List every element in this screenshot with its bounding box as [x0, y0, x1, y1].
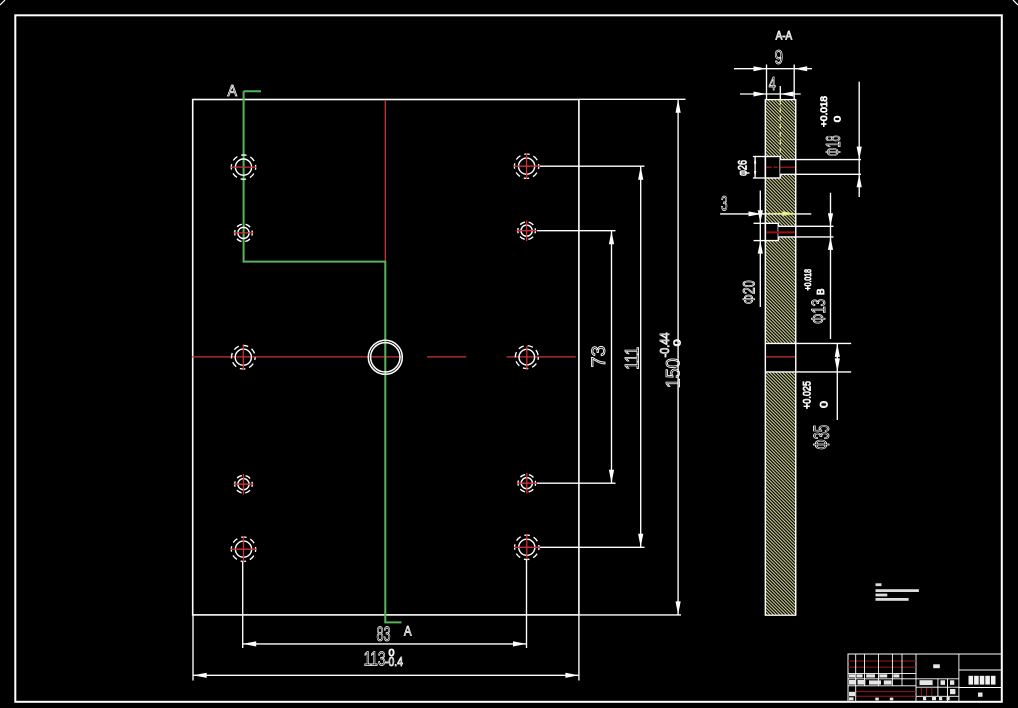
yellow dashed line x=780.3 (4-dim reference): [779, 100, 781, 157]
title block left zone white verticals: [856, 654, 902, 702]
section cutting line A-A (green polyline): [244, 91, 402, 622]
corner tick top-right: [1013, 0, 1018, 5]
dimension 4: [740, 74, 801, 97]
dimension phi26: [736, 157, 757, 179]
dimension phi13 +0.018/B: [803, 193, 833, 339]
svg-text:+0.018: +0.018: [819, 96, 830, 127]
top edge extension line (150 dim): [579, 98, 686, 100]
hole2 counterbore (phi20) cavity: [765, 223, 778, 240]
technical notes text block: [876, 583, 919, 601]
extension line from hole R2: [537, 230, 616, 232]
dimension 113 -0.4: [193, 648, 579, 678]
svg-text:B: B: [816, 288, 827, 295]
corner tick top-left: [0, 0, 5, 5]
svg-text:150: 150: [664, 358, 685, 388]
extension line down from hole L5 (83 dim): [242, 562, 244, 648]
title block outer: [848, 654, 1002, 702]
svg-text:0: 0: [833, 116, 844, 123]
hole2 through-hole edges + phi13 extension lines: [778, 225, 833, 227]
svg-text:0: 0: [818, 401, 830, 408]
svg-text:Φ20: Φ20: [740, 280, 759, 304]
hole R1 (526.6,166): [514, 154, 540, 180]
strip left/right edge redraw over cavities: [764, 100, 766, 616]
hole1 counterbore (phi26) cavity: [765, 157, 780, 179]
dimension 111: [623, 166, 644, 547]
title block middle zone red ticks: [921, 688, 932, 696]
hole1 through hole (phi18) cavity: [780, 160, 796, 175]
svg-text:113: 113: [364, 649, 386, 671]
hole R4 (526.8,483): [517, 473, 537, 494]
svg-text:-0.44: -0.44: [657, 333, 672, 358]
dimension phi35 +0.025/0: [802, 343, 840, 449]
dimension 83: [243, 623, 527, 647]
red vertical centerline of big hole (upper part): [384, 100, 386, 262]
svg-text:A: A: [404, 623, 412, 639]
hole L5 (243.5,549): [231, 536, 257, 563]
hole3 (phi35) cavity: [765, 343, 795, 372]
title block drawing name blobs: [969, 676, 996, 685]
title block main vertical dividers: [915, 654, 917, 702]
svg-text:φ26: φ26: [736, 160, 750, 176]
svg-text:111: 111: [623, 347, 644, 370]
dimension 3: [720, 193, 811, 217]
red horizontal centerline: [192, 356, 576, 358]
svg-text:9: 9: [775, 47, 784, 69]
hole3 edges + phi35 extension lines: [765, 342, 851, 344]
title block tiny text blobs: [849, 664, 983, 700]
hole1 counterbore extension lines (phi26): [753, 156, 766, 158]
hole2 centerline (dark red): [767, 231, 795, 233]
title block middle zone lines: [916, 679, 959, 702]
left edge extension line (113 dim): [192, 615, 194, 681]
svg-text:3: 3: [721, 193, 728, 216]
white extension above strip for 4-dim: [779, 86, 781, 100]
hole2 through hole (phi13) cavity: [778, 226, 795, 237]
extension line down from hole R5 (83 dim): [526, 559, 528, 648]
svg-text:Φ35: Φ35: [809, 425, 834, 450]
svg-text:A-A: A-A: [776, 31, 793, 43]
extension line from hole R4: [537, 482, 616, 484]
svg-text:4: 4: [769, 74, 776, 94]
yellow leader arrow at hole2: [766, 211, 795, 216]
svg-text:0: 0: [389, 648, 395, 659]
svg-text:0: 0: [672, 339, 683, 347]
hole1 through-hole edges + phi18 extension lines: [780, 159, 861, 161]
hole L4 (243.5,484): [234, 474, 254, 495]
svg-text:73: 73: [589, 346, 610, 368]
extension line from hole R5: [540, 546, 645, 548]
hole1 centerline (dark red): [766, 166, 796, 168]
hole L3 (243.5,357): [232, 345, 256, 369]
dimension phi20: [740, 191, 763, 308]
dimension 9: [734, 47, 812, 100]
right edge extension line (113 dim): [578, 615, 580, 681]
hole2 counterbore extension lines (phi20): [754, 222, 766, 224]
svg-text:83: 83: [377, 623, 391, 646]
hole L2 (243.5,233): [234, 224, 254, 242]
dimension 73: [589, 231, 614, 484]
section strip hatched body: [765, 100, 795, 616]
title block left zone white horizontals: [848, 673, 916, 675]
hole R2 (526.6,230.7): [517, 221, 537, 242]
hole R3 (526.8,357): [515, 346, 538, 370]
main plate outline: [193, 100, 579, 615]
hole3 centerline (bright red): [766, 356, 796, 358]
svg-text:A: A: [228, 83, 238, 100]
svg-text:+0.018: +0.018: [803, 269, 814, 291]
svg-text:+0.025: +0.025: [802, 381, 814, 409]
bottom edge extension line (150 dim): [579, 614, 681, 616]
extension line from hole R1: [540, 165, 645, 167]
dimension 150 -0.44: [657, 99, 685, 615]
svg-text:Φ13: Φ13: [809, 299, 830, 324]
title block left zone red horizontals: [848, 661, 916, 696]
hole R5 (526.8,547.3): [514, 534, 540, 561]
svg-text:Φ18: Φ18: [823, 135, 845, 156]
dimension phi18 +0.018/0: [819, 82, 862, 197]
title block right column horizontals: [959, 669, 1002, 671]
big center hole (385,357): [368, 340, 402, 374]
hole L1 (243.5,167): [231, 155, 257, 179]
